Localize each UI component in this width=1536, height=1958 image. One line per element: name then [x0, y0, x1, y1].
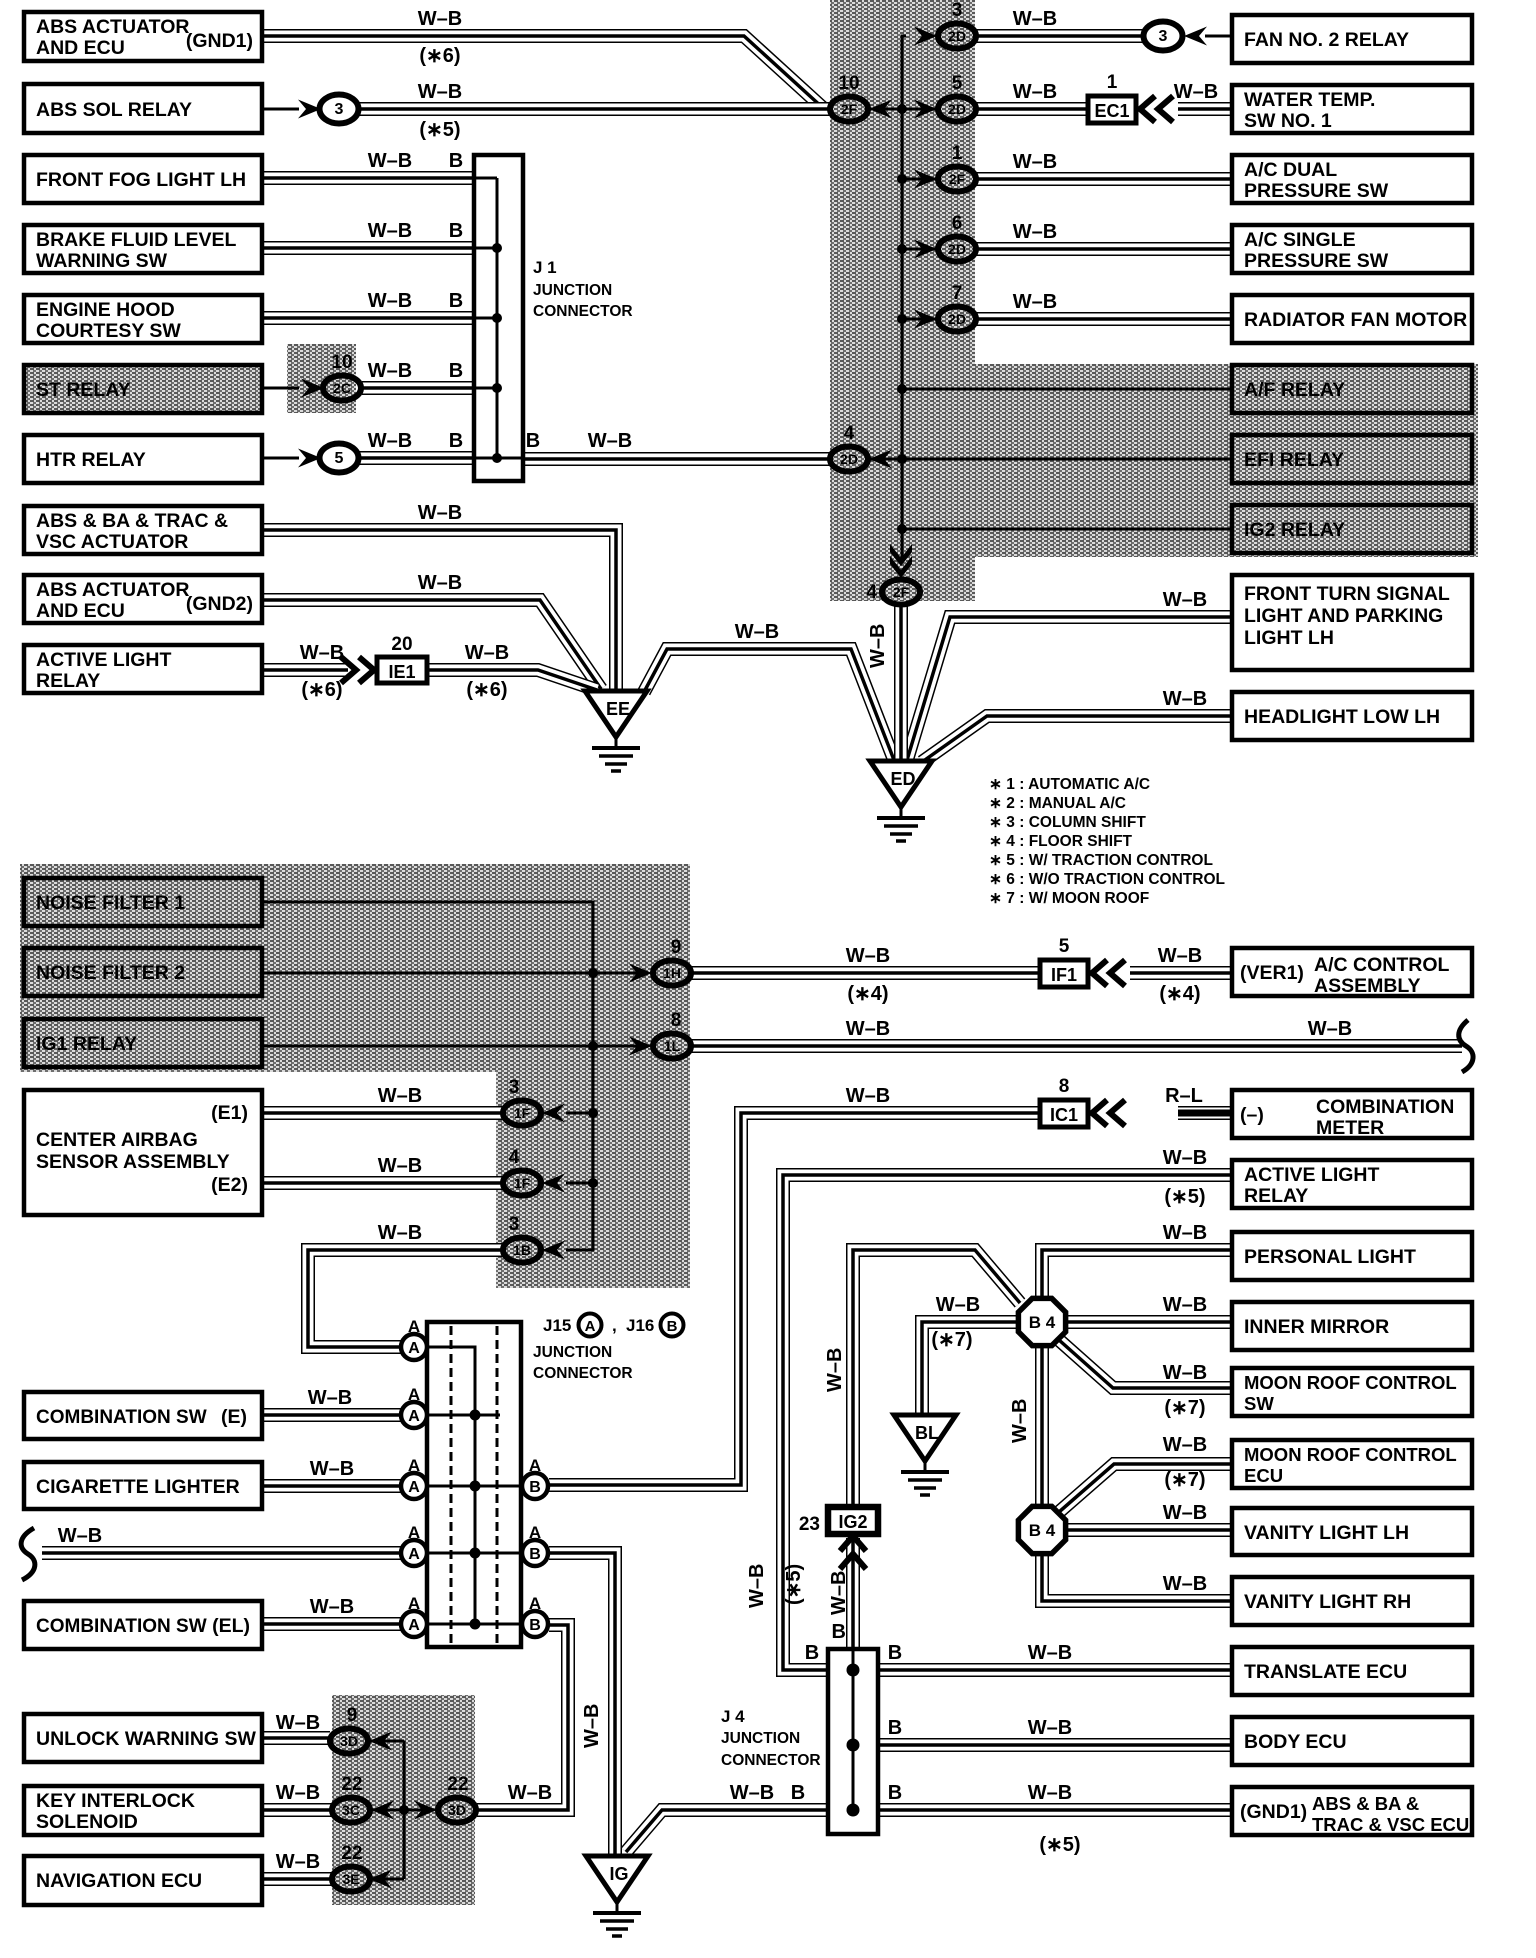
component box CIGARETTE LIGHTER [24, 1462, 262, 1509]
svg-text:COMBINATION SW: COMBINATION SW [36, 1616, 207, 1637]
wire W-B J4 to TRANSLATE ECU [878, 1663, 1232, 1677]
svg-text:B 4: B 4 [1029, 1313, 1056, 1332]
connector oval 2F (row3) [938, 167, 976, 192]
svg-text:B: B [529, 1617, 541, 1634]
double solid arrow down to connector 2F [890, 544, 912, 578]
svg-text:22: 22 [341, 1774, 362, 1795]
svg-text:(E1): (E1) [211, 1102, 248, 1124]
svg-text:JUNCTION: JUNCTION [533, 282, 612, 299]
svg-text:W–B: W–B [1163, 1147, 1207, 1169]
arrow into connector 1H [629, 964, 652, 983]
component box WATER TEMP. SW NO. 1 [1232, 85, 1472, 133]
svg-text:ENGINE HOOD: ENGINE HOOD [36, 299, 175, 321]
svg-text:22: 22 [447, 1774, 468, 1795]
svg-text:(–): (–) [1240, 1104, 1264, 1126]
svg-text:ED: ED [890, 769, 915, 789]
svg-text:3: 3 [509, 1214, 520, 1235]
svg-text:4: 4 [844, 423, 855, 444]
component box ABS & BA & TRAC & VSC ACTUATOR [24, 506, 262, 554]
connector oval 1L [653, 1034, 691, 1059]
component box KEY INTERLOCK SOLENOID [24, 1786, 262, 1835]
svg-text:W–B: W–B [276, 1712, 320, 1734]
svg-text:A: A [408, 1385, 420, 1404]
svg-text:COURTESY SW: COURTESY SW [36, 320, 181, 342]
svg-text:FAN NO. 2 RELAY: FAN NO. 2 RELAY [1244, 29, 1409, 51]
svg-text:A: A [408, 1523, 420, 1542]
svg-text:(GND1): (GND1) [186, 30, 253, 52]
wire W-B COMBINATION SW (EL) to J15 [262, 1617, 402, 1631]
svg-text:B: B [526, 430, 540, 452]
connector code box IF1 [1040, 960, 1088, 987]
component box UNLOCK WARNING SW [24, 1714, 262, 1762]
svg-text:(∗6): (∗6) [301, 679, 342, 701]
connector code box EC1 [1088, 96, 1136, 123]
svg-text:ST RELAY: ST RELAY [36, 379, 131, 401]
svg-text:1F: 1F [514, 1105, 531, 1121]
svg-text:1F: 1F [514, 1175, 531, 1191]
svg-text:NAVIGATION ECU: NAVIGATION ECU [36, 1870, 202, 1892]
svg-text:W–B: W–B [730, 1782, 774, 1804]
svg-text:ACTIVE LIGHT: ACTIVE LIGHT [36, 649, 172, 671]
svg-text:W–B: W–B [368, 360, 412, 382]
arrow into oval 2C (ST RELAY) [301, 379, 324, 398]
connector oval 2F (row2) [830, 97, 868, 122]
ground ED [870, 761, 932, 841]
svg-text:1: 1 [952, 143, 963, 164]
svg-text:IG2 RELAY: IG2 RELAY [1244, 519, 1345, 541]
svg-text:(VER1): (VER1) [1240, 962, 1304, 984]
halftone shaded region: 1F/1B connector column [496, 1072, 690, 1288]
wire W-B octagon B4 lower to VANITY LIGHT RH [1042, 1554, 1232, 1601]
svg-text:W–B: W–B [1028, 1642, 1072, 1664]
connector oval 2D (row1) [938, 24, 976, 49]
J15 circle A row1 [401, 1334, 427, 1360]
wire W-B BRAKE FLUID LEVEL WARNING SW to J1 [262, 241, 474, 255]
component box HTR RELAY [24, 435, 262, 483]
svg-text:∗ 4 : FLOOR SHIFT: ∗ 4 : FLOOR SHIFT [989, 833, 1133, 850]
J15 circle A row5 [401, 1611, 427, 1637]
svg-text:W–B: W–B [310, 1458, 354, 1480]
svg-text:ECU: ECU [1244, 1465, 1283, 1486]
svg-text:W–B: W–B [1013, 81, 1057, 103]
svg-text:(∗4): (∗4) [1159, 983, 1200, 1005]
svg-text:ABS ACTUATOR: ABS ACTUATOR [36, 579, 189, 601]
svg-text:6: 6 [952, 213, 963, 234]
svg-text:W–B: W–B [1163, 1222, 1207, 1244]
svg-text:PERSONAL LIGHT: PERSONAL LIGHT [1244, 1246, 1416, 1268]
svg-text:FRONT FOG LIGHT LH: FRONT FOG LIGHT LH [36, 169, 246, 191]
svg-text:W–B: W–B [308, 1387, 352, 1409]
wire W-B connector 2D to oval 3 (FAN NO. 2 RELAY row) [976, 29, 1144, 43]
svg-text:J 1: J 1 [533, 258, 557, 277]
arrow into oval 3 (ABS SOL RELAY) [298, 100, 321, 119]
connector oval 1F (E1) [503, 1101, 541, 1126]
svg-text:(∗5): (∗5) [1039, 1834, 1080, 1856]
svg-text:3: 3 [1159, 28, 1168, 45]
J15 circle A row4 [401, 1540, 427, 1566]
svg-text:W–B: W–B [418, 502, 462, 524]
svg-text:SOLENOID: SOLENOID [36, 1811, 138, 1833]
arrow into oval 5 (HTR RELAY) [298, 449, 321, 468]
svg-text:W–B: W–B [846, 945, 890, 967]
J16 circle B row5 [522, 1611, 548, 1637]
component box TRANSLATE ECU [1232, 1647, 1472, 1695]
wire W-B ACTIVE LIGHT RELAY to J4 [783, 1175, 1231, 1670]
connector oval 3E [332, 1867, 370, 1892]
svg-text:B: B [449, 290, 463, 312]
svg-text:W–B: W–B [1013, 151, 1057, 173]
svg-text:W–B: W–B [1013, 291, 1057, 313]
component box ABS & BA & TRAC & VSC ECU (GND1) [1232, 1787, 1472, 1835]
svg-text:1H: 1H [663, 965, 681, 981]
component box COMBINATION SW (E) [24, 1392, 262, 1439]
svg-text:A/F RELAY: A/F RELAY [1244, 379, 1345, 401]
svg-text:CIGARETTE LIGHTER: CIGARETTE LIGHTER [36, 1476, 240, 1498]
connector oval 2D (row4) [938, 237, 976, 262]
component box IG1 RELAY (shaded) [24, 1019, 262, 1067]
svg-text:CONNECTOR: CONNECTOR [533, 303, 633, 320]
svg-text:W–B: W–B [1028, 1782, 1072, 1804]
wire W-B COMBINATION METER IC1 to J15 circle B1 [549, 1113, 1040, 1485]
svg-text:NOISE FILTER 1: NOISE FILTER 1 [36, 892, 185, 914]
svg-text:IG: IG [609, 1864, 628, 1884]
component box MOON ROOF CONTROL SW [1232, 1368, 1472, 1416]
wire W-B IF1 chevron to A/C CONTROL ASSEMBLY [1130, 966, 1232, 980]
svg-text:IE1: IE1 [388, 662, 415, 682]
wire single NOISE FILTER 1 to vertical bus to connector 1B [262, 902, 593, 1250]
connector oval 2D (EFI row) [830, 447, 868, 472]
wire W-B connector 1B to J15 circle A1 [308, 1250, 503, 1347]
double chevron at IF1 [1092, 960, 1125, 986]
svg-text:CONNECTOR: CONNECTOR [533, 1365, 633, 1382]
svg-text:23: 23 [799, 1514, 820, 1535]
svg-text:(∗5): (∗5) [419, 119, 460, 141]
svg-text:(E2): (E2) [211, 1174, 248, 1196]
svg-text:AND ECU: AND ECU [36, 600, 125, 622]
svg-text:1: 1 [1107, 72, 1118, 93]
svg-text:EFI RELAY: EFI RELAY [1244, 449, 1344, 471]
svg-text:W–B: W–B [824, 1348, 846, 1392]
svg-text:3: 3 [335, 101, 344, 118]
wire W-B octagon B4 lower to VANITY LIGHT LH [1066, 1523, 1232, 1537]
svg-text:VANITY LIGHT LH: VANITY LIGHT LH [1244, 1522, 1409, 1544]
svg-text:2D: 2D [948, 28, 966, 44]
component box VANITY LIGHT LH [1232, 1508, 1472, 1555]
svg-text:∗ 2 : MANUAL A/C: ∗ 2 : MANUAL A/C [989, 795, 1126, 812]
svg-text:W–B: W–B [368, 290, 412, 312]
connector oval 1B [503, 1238, 541, 1263]
svg-text:W–B: W–B [746, 1564, 768, 1608]
connector code box IC1 [1040, 1100, 1088, 1127]
svg-text:W–B: W–B [1013, 221, 1057, 243]
wire W-B CENTER AIRBAG SENSOR (E2) to connector 1F [262, 1176, 503, 1190]
halftone shaded region: noise filter / IG1 relay area [20, 864, 690, 1072]
wire W-B octagon B4 lower to MOON ROOF CONTROL ECU [1059, 1464, 1232, 1512]
svg-text:W–B: W–B [581, 1704, 603, 1748]
wire W-B CENTER AIRBAG SENSOR (E1) to connector 1F [262, 1106, 503, 1120]
svg-text:W–B: W–B [1158, 945, 1202, 967]
svg-text:2D: 2D [840, 451, 858, 467]
wire W-B octagon B4 to ground BL [922, 1322, 1018, 1415]
svg-text:A: A [408, 1546, 420, 1563]
wire single IG1 RELAY to connector 1L [262, 1045, 640, 1048]
svg-text:VANITY LIGHT RH: VANITY LIGHT RH [1244, 1591, 1411, 1613]
wire single 3D/3E vertical link [370, 1741, 404, 1879]
component box ST RELAY (shaded) [24, 365, 262, 413]
svg-text:8: 8 [1059, 1076, 1070, 1097]
connector oval 2D (row2) [938, 97, 976, 122]
svg-text:WATER TEMP.: WATER TEMP. [1244, 89, 1375, 111]
component box BODY ECU [1232, 1717, 1472, 1765]
svg-text:10: 10 [331, 352, 352, 373]
component box ABS ACTUATOR AND ECU (GND1) [24, 12, 262, 61]
double chevron at EC1 [1140, 96, 1173, 122]
svg-text:(∗5): (∗5) [1164, 1186, 1205, 1208]
svg-text:9: 9 [671, 937, 682, 958]
double chevron up at IG2 [840, 1536, 866, 1569]
svg-text:W–B: W–B [1163, 1573, 1207, 1595]
svg-text:HTR RELAY: HTR RELAY [36, 449, 146, 471]
svg-text:8: 8 [671, 1010, 682, 1031]
wire W-B octagon B4 to PERSONAL LIGHT [1042, 1250, 1231, 1298]
svg-text:∗ 6 : W/O TRACTION CONTROL: ∗ 6 : W/O TRACTION CONTROL [989, 871, 1225, 888]
svg-text:W–B: W–B [418, 8, 462, 30]
wire W-B connector 2D to RADIATOR FAN MOTOR [976, 312, 1232, 326]
svg-text:COMBINATION SW: COMBINATION SW [36, 1407, 207, 1428]
connector code box IE1 [377, 657, 427, 683]
svg-text:5: 5 [335, 450, 344, 467]
svg-text:22: 22 [341, 1843, 362, 1864]
svg-text:W–B: W–B [300, 642, 344, 664]
wire W-B connector 2D to EC1 [976, 102, 1088, 116]
svg-text:W–B: W–B [276, 1782, 320, 1804]
svg-text:A/C CONTROL: A/C CONTROL [1314, 954, 1449, 976]
svg-text:(∗6): (∗6) [466, 679, 507, 701]
svg-text:TRANSLATE ECU: TRANSLATE ECU [1244, 1661, 1407, 1683]
svg-text:ABS ACTUATOR: ABS ACTUATOR [36, 16, 189, 38]
svg-text:W–B: W–B [1163, 1294, 1207, 1316]
svg-text:ASSEMBLY: ASSEMBLY [1314, 975, 1421, 997]
svg-text:W–B: W–B [735, 621, 779, 643]
junction dot 3C-3D link [399, 1805, 409, 1815]
wire single bus to connector 1F (E2) [566, 1182, 593, 1185]
svg-text:IF1: IF1 [1051, 965, 1077, 985]
svg-text:W–B: W–B [1163, 589, 1207, 611]
svg-text:B: B [888, 1782, 902, 1804]
svg-text:A: A [529, 1523, 541, 1542]
svg-text:W–B: W–B [846, 1018, 890, 1040]
junction connector J1 [474, 155, 523, 481]
component box A/C DUAL PRESSURE SW [1232, 155, 1472, 203]
svg-text:W–B: W–B [58, 1525, 102, 1547]
component box HEADLIGHT LOW LH [1232, 692, 1472, 740]
svg-text:∗ 3 : COLUMN SHIFT: ∗ 3 : COLUMN SHIFT [989, 814, 1146, 831]
wire W-B ABS ACTUATOR AND ECU (GND2) to ground EE [262, 600, 601, 689]
svg-text:COMBINATION: COMBINATION [1316, 1096, 1454, 1118]
svg-text:(∗6): (∗6) [419, 45, 460, 67]
svg-text:B: B [529, 1479, 541, 1496]
svg-text:W–B: W–B [368, 430, 412, 452]
component box A/F RELAY (shaded) [1232, 365, 1472, 413]
component box EFI RELAY (shaded) [1232, 435, 1472, 483]
svg-text:5: 5 [1059, 936, 1070, 957]
component box BRAKE FLUID LEVEL WARNING SW [24, 225, 262, 273]
wire W-B connector 5 to J1 [359, 451, 474, 465]
ground BL [894, 1415, 956, 1495]
svg-text:RADIATOR FAN MOTOR: RADIATOR FAN MOTOR [1244, 309, 1467, 331]
svg-text:UNLOCK WARNING SW: UNLOCK WARNING SW [36, 1728, 256, 1750]
wire W-B FRONT TURN SIGNAL LIGHT to ground ED [907, 617, 1232, 760]
wire single HTR RELAY to arrow [262, 457, 299, 460]
component box ACTIVE LIGHT RELAY [24, 645, 262, 693]
wire single NOISE FILTER 2 to connector 1H [262, 972, 640, 975]
wire W-B J4 to ABS & BA & TRAC & VSC ECU (GND1) [878, 1803, 1232, 1817]
wire B EFI RELAY row [868, 458, 1232, 461]
wire W-B COMBINATION SW (E) to J15 [262, 1408, 402, 1422]
connector oval 3D (key) [438, 1798, 476, 1823]
wire W-B NAVIGATION ECU to connector 3E [262, 1872, 332, 1886]
svg-text:B: B [667, 1318, 678, 1335]
arrow into connector 1L [629, 1037, 652, 1056]
svg-text:W–B: W–B [1163, 1434, 1207, 1456]
J15 circle A row3 [401, 1473, 427, 1499]
component box NOISE FILTER 1 (shaded) [24, 878, 262, 926]
wire single ABS SOL RELAY to arrow [262, 108, 299, 111]
svg-text:W–B: W–B [368, 150, 412, 172]
svg-text:W–B: W–B [310, 1596, 354, 1618]
halftone shaded region: 3C/3D/3E connector area [332, 1695, 475, 1905]
svg-text:W–B: W–B [1163, 1502, 1207, 1524]
svg-text:IC1: IC1 [1050, 1105, 1078, 1125]
svg-text:B: B [449, 220, 463, 242]
wire single 3C-3D link [370, 1809, 434, 1812]
svg-text:A: A [585, 1318, 596, 1335]
wire W-B ENGINE HOOD COURTESY SW to J1 [262, 311, 474, 325]
svg-text:ACTIVE LIGHT: ACTIVE LIGHT [1244, 1164, 1380, 1186]
junction dots on vertical bus [897, 104, 907, 114]
wire W-B EC1 chevron to WATER TEMP SW NO. 1 [1178, 102, 1232, 116]
wire single links 2F-2D row 2 [868, 108, 938, 111]
svg-text:(∗7): (∗7) [1164, 1469, 1205, 1491]
svg-text:A: A [408, 1456, 420, 1475]
svg-text:2F: 2F [893, 584, 910, 600]
svg-text:B: B [449, 360, 463, 382]
svg-text:LIGHT LH: LIGHT LH [1244, 627, 1334, 649]
svg-text:EC1: EC1 [1094, 101, 1129, 121]
svg-text:RELAY: RELAY [36, 670, 100, 692]
svg-text:INNER MIRROR: INNER MIRROR [1244, 1316, 1389, 1338]
svg-text:A/C SINGLE: A/C SINGLE [1244, 229, 1356, 251]
wire W-B connector 2D to A/C SINGLE PRESSURE SW [976, 242, 1232, 256]
svg-text:ABS & BA &: ABS & BA & [1312, 1793, 1419, 1814]
halftone shaded region: relay bank background (top center band) [830, 0, 975, 601]
svg-text:(GND2): (GND2) [186, 593, 253, 615]
connector octagon B4 upper [1018, 1298, 1065, 1345]
svg-text:MOON ROOF CONTROL: MOON ROOF CONTROL [1244, 1444, 1457, 1465]
svg-text:J16: J16 [626, 1316, 654, 1335]
svg-text:4: 4 [509, 1147, 520, 1168]
svg-text:(∗7): (∗7) [931, 1329, 972, 1351]
component box ENGINE HOOD COURTESY SW [24, 295, 262, 343]
svg-text:B: B [529, 1546, 541, 1563]
wire R-L IC1 chevron to COMBINATION METER [1178, 1106, 1232, 1120]
component box VANITY LIGHT RH [1232, 1577, 1472, 1625]
svg-text:2D: 2D [948, 101, 966, 117]
component box ACTIVE LIGHT RELAY (right) [1232, 1160, 1472, 1208]
junction connector J15/J16 [427, 1322, 521, 1647]
svg-text:SW: SW [1244, 1393, 1274, 1414]
svg-text:LIGHT AND PARKING: LIGHT AND PARKING [1244, 605, 1443, 627]
svg-text:(EL): (EL) [212, 1615, 250, 1637]
component box MOON ROOF CONTROL ECU [1232, 1440, 1472, 1488]
svg-text:W–B: W–B [1174, 81, 1218, 103]
wire W-B J4 to BODY ECU [878, 1738, 1232, 1752]
svg-text:A: A [529, 1594, 541, 1613]
svg-text:2D: 2D [948, 311, 966, 327]
connector oval 2D (row5) [938, 307, 976, 332]
svg-text:B: B [791, 1782, 805, 1804]
svg-text:B 4: B 4 [1029, 1521, 1056, 1540]
svg-text:PRESSURE SW: PRESSURE SW [1244, 250, 1389, 272]
svg-text:JUNCTION: JUNCTION [533, 1344, 612, 1361]
svg-text:W–B: W–B [378, 1222, 422, 1244]
wire W-B ground EE to ground ED [644, 649, 894, 760]
svg-text:METER: METER [1316, 1117, 1384, 1139]
svg-text:A: A [408, 1317, 420, 1336]
svg-text:J 4: J 4 [721, 1707, 745, 1726]
svg-text:B: B [449, 430, 463, 452]
svg-text:W–B: W–B [508, 1782, 552, 1804]
svg-text:KEY INTERLOCK: KEY INTERLOCK [36, 1790, 195, 1812]
svg-text:EE: EE [606, 699, 630, 719]
component box COMBINATION METER [1232, 1090, 1472, 1138]
component box FRONT FOG LIGHT LH [24, 155, 262, 203]
svg-text:CENTER AIRBAG: CENTER AIRBAG [36, 1129, 198, 1151]
svg-text:SENSOR ASSEMBLY: SENSOR ASSEMBLY [36, 1151, 230, 1173]
svg-text:B: B [832, 1621, 846, 1643]
wire W-B J15 circle B2 to ground IG [549, 1553, 615, 1855]
svg-text:,: , [612, 1316, 617, 1335]
svg-text:W–B: W–B [378, 1085, 422, 1107]
arrows into connectors 1F/1F/1B [542, 1104, 565, 1123]
svg-text:RELAY: RELAY [1244, 1185, 1308, 1207]
J16 circle B row4 [522, 1540, 548, 1566]
component box COMBINATION SW (EL) [24, 1601, 262, 1649]
svg-text:W–B: W–B [418, 81, 462, 103]
wire B IG2 RELAY row [902, 528, 1232, 531]
wire W-B continuation to J15 [42, 1546, 402, 1560]
wire W-B connector 2F to ground ED [894, 604, 908, 760]
connector oval 5 [320, 444, 359, 473]
component box RADIATOR FAN MOTOR [1232, 295, 1472, 343]
svg-text:9: 9 [347, 1705, 358, 1726]
wire W-B J1 to connector 2D (EFI row) [523, 452, 830, 466]
connector oval 2C [323, 376, 361, 401]
svg-text:A: A [408, 1617, 420, 1634]
wire W-B connector 1H to IF1 [691, 966, 1040, 980]
svg-text:W–B: W–B [828, 1571, 850, 1615]
svg-text:AND ECU: AND ECU [36, 37, 125, 59]
svg-text:W–B: W–B [1028, 1717, 1072, 1739]
svg-text:W–B: W–B [1013, 8, 1057, 30]
component box NOISE FILTER 2 (shaded) [24, 948, 262, 996]
wire W-B HEADLIGHT LOW LH to ground ED [922, 716, 1232, 762]
svg-text:B: B [888, 1642, 902, 1664]
J16 circle B row3 [522, 1473, 548, 1499]
J15 circle A row2 [401, 1402, 427, 1428]
double chevron at IC1 [1092, 1100, 1125, 1126]
svg-text:2D: 2D [948, 241, 966, 257]
